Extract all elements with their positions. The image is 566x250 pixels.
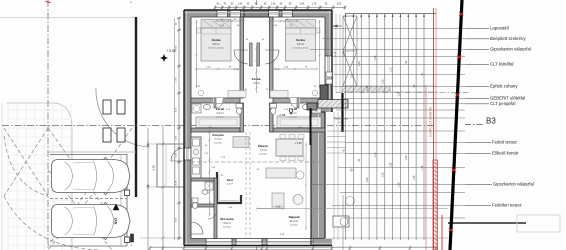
site: plot boundary line top	[0, 17, 136, 19]
svg-text:Szoba: Szoba	[296, 38, 305, 42]
washer R bath	[312, 104, 321, 113]
svg-text:1,05: 1,05	[397, 91, 400, 96]
callout label GEBERIT előtétfal	[465, 97, 489, 99]
interior wall corridor left	[240, 17, 244, 98]
pergola post 4	[117, 128, 125, 142]
pergola post 2	[117, 100, 125, 114]
terrace vertical thin lines	[337, 112, 339, 240]
pantry walls dark	[217, 172, 241, 203]
window top-right 1	[269, 10, 280, 17]
interior wall corridor lower L	[240, 103, 244, 132]
svg-text:Lapostető: Lapostető	[490, 26, 509, 31]
fan baseline top	[345, 13, 436, 15]
svg-text:CLT pengefal: CLT pengefal	[490, 101, 515, 106]
window right wall	[325, 56, 332, 84]
svg-text:4,4 m²: 4,4 m²	[216, 112, 223, 115]
bath door leaf R	[297, 98, 299, 108]
bedroom door leaf R	[257, 43, 260, 66]
parking edge marker 2	[125, 237, 130, 243]
svg-text:14,3 m²: 14,3 m²	[338, 121, 345, 124]
svg-text:1,35: 1,35	[366, 85, 369, 90]
interior wall bedroomL/bath	[191, 98, 240, 103]
svg-text:1,28: 1,28	[390, 162, 393, 167]
svg-text:1,13: 1,13	[374, 152, 377, 157]
callout label Előtető kontúr	[465, 152, 491, 154]
svg-text:Gard.: Gard.	[227, 179, 234, 182]
callout label Fedett terasz	[465, 141, 491, 143]
bath door arc L	[216, 100, 223, 109]
feature lines left of building	[148, 143, 184, 145]
bedroom door arc L	[234, 50, 248, 64]
svg-text:2,02: 2,02	[337, 4, 342, 6]
svg-text:1,28: 1,28	[374, 55, 377, 60]
svg-text:burkolat: burkolat	[289, 116, 297, 119]
interior wall corridor right	[270, 17, 274, 98]
bedroom door leaf L	[250, 43, 253, 66]
exterior wall right upper	[325, 10, 332, 112]
bath door arc R	[290, 100, 297, 109]
svg-text:1,48: 1,48	[342, 51, 345, 56]
site: driveway outline	[6, 103, 72, 250]
bed bedroom L	[201, 28, 231, 61]
AC boxes outside right wall	[326, 72, 332, 77]
nightstand L	[197, 28, 201, 33]
svg-text:2,45: 2,45	[300, 4, 305, 6]
benchmark star	[161, 55, 168, 62]
pergola post 1	[103, 100, 111, 114]
living room dim line 4,38	[257, 208, 284, 210]
svg-text:5,9 m²: 5,9 m²	[223, 222, 230, 225]
svg-text:7,7 m²: 7,7 m²	[214, 138, 221, 141]
svg-text:Fürdő: Fürdő	[216, 107, 225, 111]
svg-text:1,35: 1,35	[397, 182, 400, 187]
parking space outlines	[50, 154, 127, 156]
wardrobe bedroom R	[286, 20, 316, 29]
svg-text:1,05: 1,05	[366, 177, 369, 182]
axis dash-dot horizontal	[2, 125, 436, 127]
svg-text:1,20: 1,20	[382, 79, 385, 84]
section cut line B3	[450, 0, 462, 250]
wc toilet	[192, 198, 198, 203]
rug circle	[293, 195, 303, 205]
svg-text:burkolat: burkolat	[214, 142, 222, 145]
tick row below top windows L	[216, 20, 244, 22]
svg-text:4,38: 4,38	[276, 206, 281, 208]
bedroom R vertical dim	[319, 20, 321, 88]
exterior wall left	[184, 10, 191, 246]
fence end post	[131, 234, 134, 242]
bathtub L	[196, 117, 240, 128]
parking edge marker 1	[125, 190, 130, 196]
exterior wall bottom	[184, 239, 332, 246]
fan dimension line 1,05	[399, 14, 401, 240]
toilet R bath	[270, 104, 277, 109]
svg-text:burkolat: burkolat	[259, 153, 267, 156]
driveway turning arc	[96, 88, 150, 147]
center axis dash above building	[256, 0, 258, 10]
dining table	[276, 139, 303, 156]
faint rect bottom right	[517, 215, 560, 232]
living room vertical dim	[305, 142, 307, 230]
interior dim vertical kitchen	[209, 130, 211, 215]
wc sink	[202, 190, 208, 195]
bedroom door arc R	[265, 50, 279, 64]
interior wall bedroomR/bath	[273, 98, 325, 103]
window bottom 2	[236, 239, 262, 246]
window brace X column	[343, 15, 357, 17]
red x marks on section	[459, 12, 463, 16]
built shower block (epitett zuhany)	[320, 85, 328, 102]
bath door leaf L	[214, 98, 216, 108]
terrace pier	[307, 103, 317, 110]
svg-text:3,18: 3,18	[152, 165, 156, 171]
gate swing dashed lines	[48, 128, 132, 246]
svg-text:Gipszkarton válaszfal: Gipszkarton válaszfal	[490, 47, 531, 52]
red ladder bar	[433, 160, 438, 250]
black separator bottom right	[448, 222, 526, 224]
svg-text:ÚJ ÉPÜLET KONTÚR: ÚJ ÉPÜLET KONTÚR	[428, 106, 433, 137]
outdoor unit	[333, 216, 349, 227]
svg-text:9,5 m²: 9,5 m²	[297, 43, 304, 46]
bathtub R	[277, 117, 321, 128]
svg-text:Fedetlen terasz: Fedetlen terasz	[492, 203, 522, 208]
armchair circle living	[296, 171, 304, 179]
svg-text:Konyha: Konyha	[212, 133, 223, 137]
bedroom L vertical dim	[196, 20, 198, 88]
svg-text:9,5 m²: 9,5 m²	[212, 43, 219, 46]
svg-text:Beépített szekrény: Beépített szekrény	[490, 36, 526, 41]
site: faint grid green area	[7, 104, 9, 250]
svg-text:B3: B3	[486, 117, 496, 126]
B3 dash-dot line	[465, 124, 483, 126]
svg-text:NY2: NY2	[114, 218, 118, 225]
stall label arrow	[113, 204, 119, 210]
callout label Beépített szekrény	[465, 38, 489, 40]
fan dimension line 81	[423, 14, 425, 240]
exterior wall right lower stepped	[311, 112, 325, 246]
svg-text:1,40: 1,40	[271, 4, 276, 6]
svg-text:1,40: 1,40	[405, 155, 408, 160]
entrance door opening	[184, 148, 191, 160]
wall inner edges	[191, 17, 325, 239]
svg-text:Előtető kontúr: Előtető kontúr	[492, 151, 519, 156]
desk bedroom R	[270, 91, 288, 98]
sideboard living	[272, 193, 284, 207]
canopy hatched band east	[342, 86, 390, 92]
top dimension chain	[215, 7, 345, 9]
kitchen counter	[191, 137, 201, 178]
sofa living	[266, 168, 296, 178]
dim arrow into right wall	[333, 25, 342, 27]
svg-text:+ 2,98: + 2,98	[277, 113, 286, 117]
fan dimension line 1,28	[376, 14, 378, 240]
sliding door bottom	[267, 239, 313, 246]
red fence double line	[433, 8, 435, 250]
fan dimension line 1,13	[392, 14, 394, 240]
window bottom 1	[206, 239, 232, 246]
car 1 top parking space	[52, 157, 131, 194]
svg-text:1,78: 1,78	[312, 4, 317, 6]
interior wall wc bottom	[191, 204, 214, 207]
interior wall bathR/dining	[273, 128, 325, 132]
wall outer edges	[184, 10, 332, 246]
left dimension chain	[178, 18, 180, 240]
svg-text:laminált parketta: laminált parketta	[208, 47, 225, 50]
red strip bottom	[441, 215, 443, 250]
svg-text:Előszoba: Előszoba	[220, 217, 234, 221]
svg-text:Fedett terasz: Fedett terasz	[492, 140, 517, 145]
svg-text:1,13: 1,13	[390, 67, 393, 72]
tick row below top windows R	[269, 20, 297, 22]
window top-left 2	[230, 10, 241, 17]
interior wall bathL/kitchen	[191, 128, 240, 132]
fan dimension line 1,40	[360, 14, 362, 240]
fan dimension line 1,48	[345, 14, 347, 240]
canopy dashes interior	[191, 161, 325, 163]
svg-text:1,40: 1,40	[358, 61, 361, 66]
exterior wall top	[184, 10, 332, 17]
fan dimension line 1,20	[384, 14, 386, 240]
bedroom L dim line	[196, 68, 239, 70]
svg-text:burkolat: burkolat	[216, 116, 224, 119]
svg-text:burkolat: burkolat	[223, 226, 231, 229]
svg-text:Szoba: Szoba	[212, 38, 221, 42]
callout label CLT pengefal	[465, 103, 489, 105]
dash-dot axis right y92	[336, 92, 470, 94]
svg-text:burkolat: burkolat	[290, 224, 298, 227]
wc shower	[205, 182, 213, 190]
svg-text:1,45: 1,45	[413, 175, 416, 180]
callout label Gipszkarton válaszfal	[465, 183, 492, 185]
svg-text:Gipszkarton válaszfal: Gipszkarton válaszfal	[493, 182, 534, 187]
bottom dimension chain	[150, 246, 436, 248]
terrace wall vertical black	[341, 93, 343, 132]
car 2 bottom parking space	[52, 202, 131, 239]
sink R bath	[302, 104, 309, 109]
projection lines right of building	[335, 14, 337, 92]
bed bedroom R	[286, 28, 316, 61]
wardrobe bedroom L	[201, 20, 231, 29]
svg-text:+ 2,56: + 2,56	[294, 141, 302, 145]
terrace step ladder lines	[327, 130, 346, 132]
svg-text:2,18: 2,18	[334, 51, 337, 56]
kitchen upper cab dashed	[200, 137, 202, 178]
washer L bath	[192, 104, 201, 113]
toilet L bath	[236, 104, 243, 109]
svg-text:laminált parketta: laminált parketta	[292, 47, 309, 50]
svg-text:21,6 m²: 21,6 m²	[290, 220, 299, 223]
svg-text:1,20: 1,20	[382, 172, 385, 177]
callout label Épített zuhany	[465, 85, 489, 87]
svg-text:2,2 m²: 2,2 m²	[227, 183, 233, 186]
entrance door arc	[171, 148, 184, 161]
party block top wall	[244, 10, 269, 17]
svg-text:GEBERIT előtétfal: GEBERIT előtétfal	[490, 96, 525, 101]
svg-text:Épített zuhany: Épített zuhany	[490, 84, 518, 89]
window top-right 2	[282, 10, 293, 17]
corridor dim line	[256, 45, 258, 93]
property boundary thick line	[135, 17, 137, 197]
pergola post 3	[103, 128, 111, 142]
interior wall wc/hall	[214, 178, 217, 239]
callout label Fedetlen terasz	[465, 204, 491, 206]
interior wall wc top	[191, 178, 214, 181]
red boundary thin	[425, 85, 427, 250]
bedroom R dim line	[274, 68, 317, 70]
svg-text:1,45: 1,45	[350, 73, 353, 78]
sink L bath	[203, 104, 210, 109]
kitchen island	[233, 137, 249, 148]
desk bedroom L	[228, 91, 246, 98]
hall door arc	[191, 222, 203, 234]
bath door gap L	[213, 98, 223, 103]
hall inner door arc	[208, 210, 217, 219]
feature lines right	[332, 27, 465, 29]
nightstand R	[316, 28, 320, 33]
axis dash-dot vertical	[47, 0, 49, 250]
terrace west black wall line	[310, 108, 312, 145]
svg-text:1,40: 1,40	[238, 4, 243, 6]
pavement edge	[48, 151, 136, 153]
window top-left 1	[217, 10, 228, 17]
fan dimension line 1,35	[368, 14, 370, 240]
terrace edge lines	[257, 208, 448, 210]
svg-text:Nappali: Nappali	[289, 215, 300, 219]
svg-text:×: ×	[130, 1, 132, 5]
svg-text:Étkező: Étkező	[258, 143, 268, 148]
fan dimension line 89	[415, 14, 417, 240]
interior wall corridor lower R	[270, 103, 274, 132]
svg-text:CLT külsőfal: CLT külsőfal	[490, 62, 514, 67]
porch outline	[157, 144, 185, 187]
jog block	[311, 104, 325, 112]
red survey tick on axis	[46, 2, 51, 3]
wall layer lines	[184, 11, 332, 13]
dimension line x163	[162, 126, 164, 250]
fan dimension line 1,45	[352, 14, 354, 240]
dimension line x148	[147, 128, 149, 250]
terrace north wall hatched stub	[318, 100, 348, 109]
terrace planter	[346, 197, 355, 206]
callout label Gipszkarton válaszfal	[465, 48, 489, 50]
callout label CLT külsőfal	[465, 63, 489, 65]
svg-text:7,7 m²: 7,7 m²	[259, 149, 266, 152]
bath door gap R	[290, 98, 300, 103]
callout label Lapostető	[465, 27, 489, 29]
fan dimension line 97	[407, 14, 409, 240]
